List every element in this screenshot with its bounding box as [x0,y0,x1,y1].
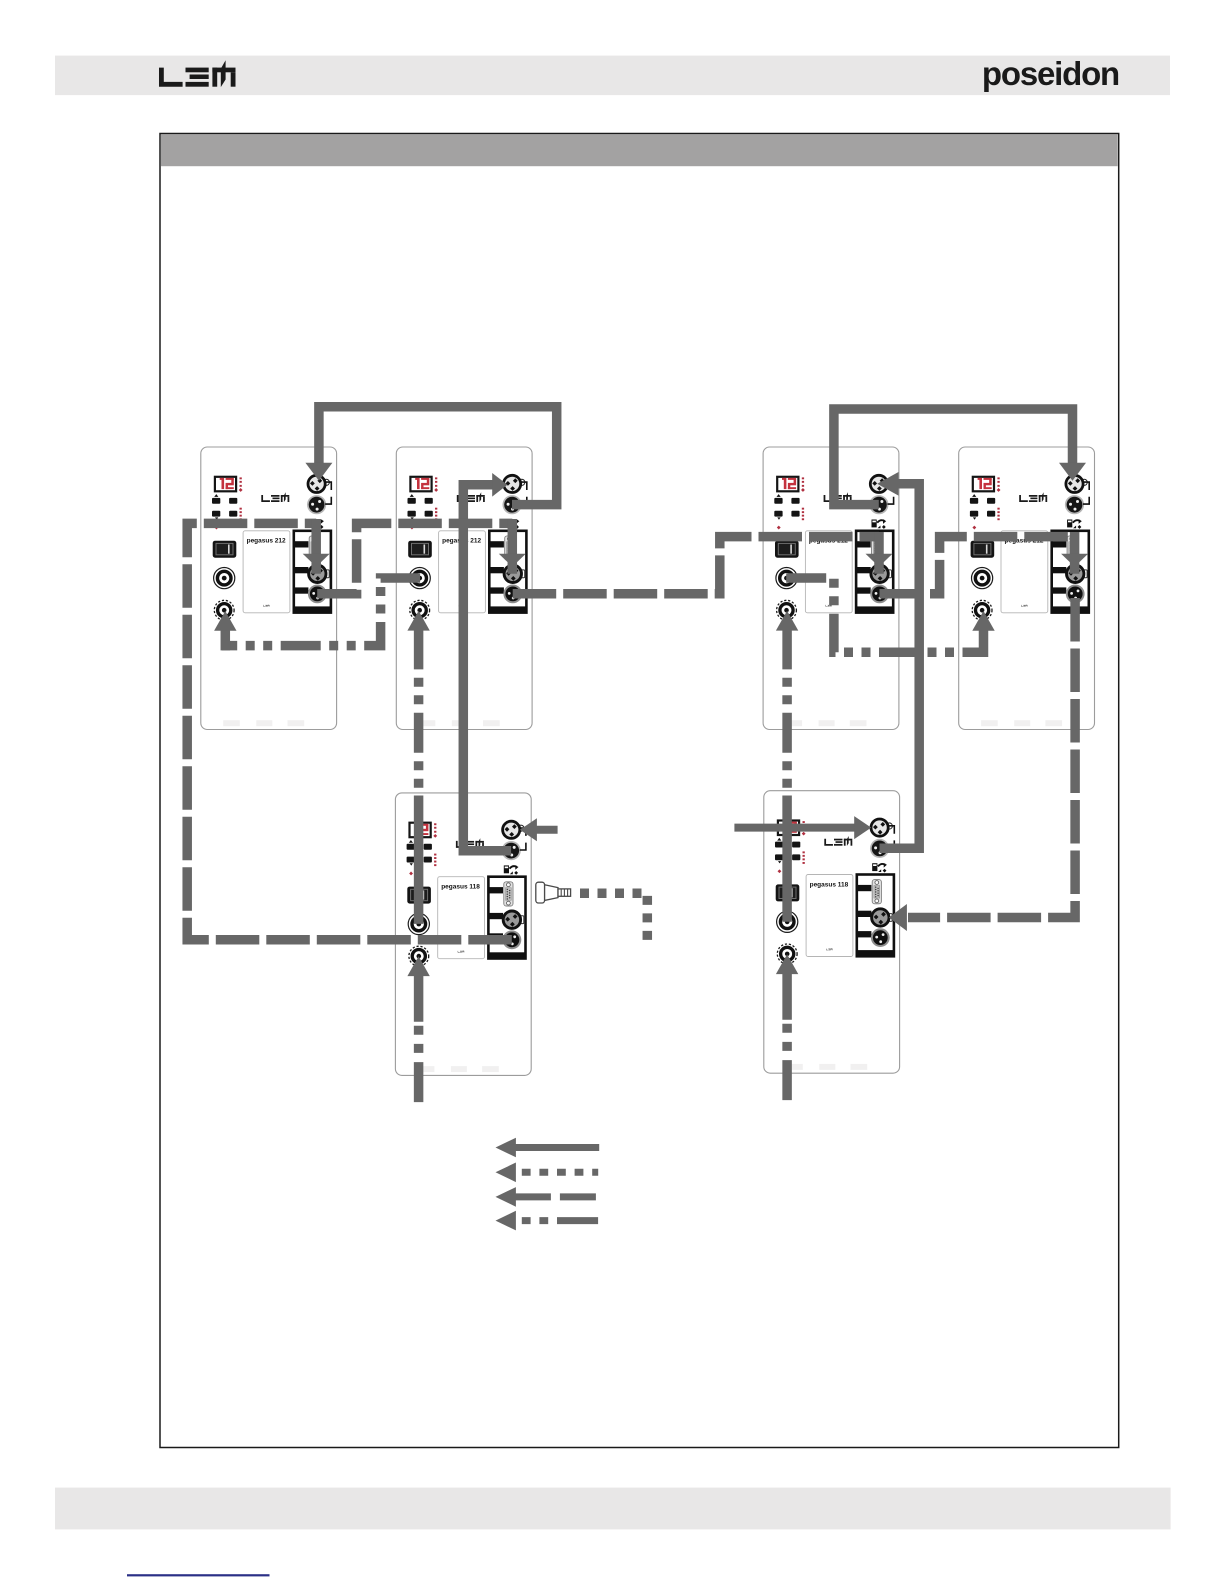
arrowhead into U3 jack2 [776,611,798,631]
wire C arrow stem [414,630,424,670]
wire G line link U3 out to U4 in [834,409,1073,505]
speaker U1 pegasus 212 [201,447,337,730]
legend dotted cable [496,1163,516,1183]
arrowhead into U3 XLR1 [877,472,898,496]
speaker U3 pegasus 212 [763,447,899,730]
arrowhead into U6 XLR1 [854,816,871,839]
arrowhead into U3 bay XLR [866,554,893,567]
wire D loop U2 jack1 to U1 jack2 [222,578,420,646]
legend arrows [496,1138,600,1231]
wire E arrow stem [311,519,321,574]
speaker U2 pegasus 212 [396,447,532,730]
arrowhead into U2 jack2 [407,611,429,631]
arrowhead into U5 XLR1 [520,818,537,841]
wire F arrow stem [508,519,518,574]
wire I arrow stem [782,630,792,670]
header band [55,56,1170,96]
speaker U4 pegasus 212 [959,447,1095,730]
wire H sub U6 out to U3 in [880,484,920,849]
wire C solid run U5 jack to U2 [414,796,424,924]
footer blue rule [127,1574,270,1576]
footer band [55,1488,1171,1530]
wire C dashed run [414,669,424,795]
wire A line link U2 out to U1 in [319,407,557,505]
subwoofer U6 pegasus 118 [764,791,900,1073]
wire R1 U2 thru to U3 bay in [513,537,879,594]
wire U5 jack2 feed dashes [414,1026,424,1103]
wire dotted remote lead [580,893,647,943]
legend dashed cable [496,1187,516,1207]
arrowhead into U6 jack2 [776,954,798,974]
arrowhead into U5 jack2 [407,956,429,976]
wire I dashed run [782,669,792,795]
wire J loop U3 jack1 to U4 jack2 [786,578,979,652]
frame title bar [161,134,1118,166]
subwoofer U5 pegasus 118 [395,793,531,1076]
arrowhead into U1 bay XLR [303,554,330,567]
wire D arrow stem [221,630,231,651]
wire R3 feed stub into U6 [734,824,856,832]
arrowhead into U2 XLR1 [492,473,507,497]
legend solid cable [496,1138,516,1158]
arrowhead into U4 jack2 [972,611,994,631]
wire K U4 thru down to U6 bay in [908,598,1075,918]
arrowhead into U4 XLR1 [1059,463,1086,481]
arrowhead into U4 bay XLR [1061,554,1088,567]
arrowhead into U1 XLR1 [305,463,332,481]
arrowhead into U6 bay XLR [889,904,907,931]
svg-text:poseidon: poseidon [982,55,1119,92]
wire F U1 thru to U2 bay in [317,523,512,593]
wire R2 U3 thru to U4 bay in [880,537,1075,594]
wire E sub U5 link out to U1 bay in [187,523,512,939]
legend mixed cable [496,1211,516,1231]
wire R2 arrow stem [1070,532,1080,574]
wire R1 arrow stem [874,532,884,574]
wire U5 jack2 feed stem [414,975,424,1022]
arrowhead into U1 jack2 [214,611,236,631]
header LEM logo [159,60,236,87]
DB9 cable plug symbol [536,882,571,903]
arrowhead into U2 bay XLR [499,554,526,567]
wire U6 jack2 feed stem [782,973,792,1020]
wire I solid run U6 jack to U3 [782,796,792,922]
diagram frame [160,134,1119,1448]
wire U6 jack2 feed dashes [782,1024,792,1101]
wire stub feed into U5 [536,826,558,834]
wire B sub U5 out to U2 in [463,485,511,851]
wire J corner stem [970,630,984,652]
